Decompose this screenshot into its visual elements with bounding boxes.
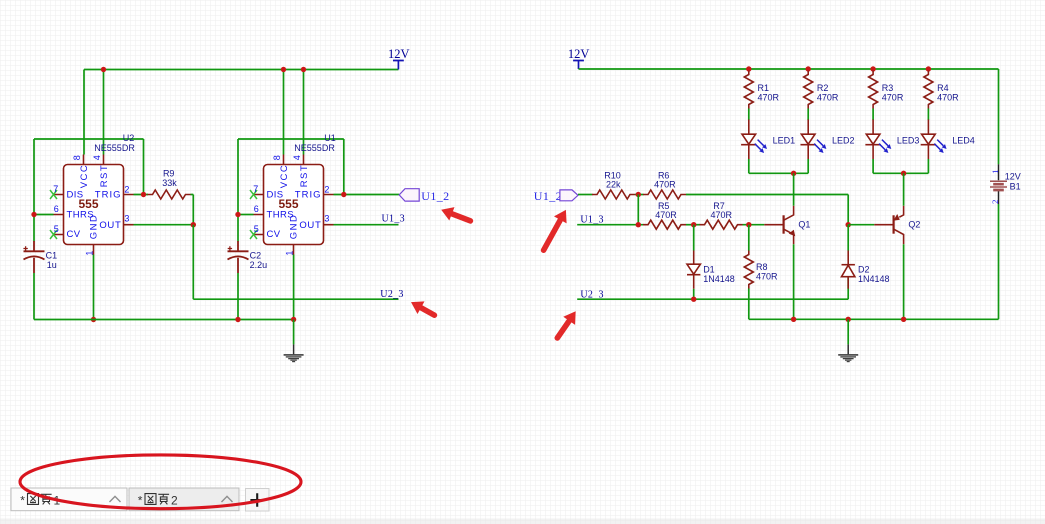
U1 pin numbers [253,155,329,255]
junction bottom Q2 [901,317,906,322]
wire D2 column [847,225,849,300]
sheet tab 2 [129,488,239,511]
wire U2 thrs/C1 left column [33,139,35,320]
annotation arrow at U1_2 port right [544,210,567,250]
resistor R9 [148,190,191,199]
svg-text:470R: 470R [711,210,733,220]
op-amp U1 555 box [254,155,334,255]
transistor Q2 [874,206,903,245]
wire net U1_3 right [577,224,643,226]
annotation ellipse around sheet tabs [20,455,301,509]
wire B1 column top [998,69,1000,164]
wire LED3 down [872,159,874,173]
wire LED1 down [748,159,750,173]
svg-text:2: 2 [324,184,329,194]
svg-text:470R: 470R [654,180,676,190]
junction bottom gnd [846,317,851,322]
svg-text:D1: D1 [703,264,715,274]
no-connect X U1 pin7 [250,190,257,199]
svg-text:B1: B1 [1010,181,1021,191]
port U1_2 left [399,189,449,203]
wire ground stub left [293,320,295,345]
wire U2 pin8 VCC column [83,70,85,155]
svg-text:5: 5 [54,224,59,234]
annotation arrow at U1_2 port left [441,207,470,221]
svg-text:3: 3 [124,214,129,224]
U2 pin names [67,164,122,240]
svg-text:4: 4 [292,155,302,160]
svg-text:470R: 470R [655,210,677,220]
junction bottom Q1 [791,317,796,322]
junction U2 gnd bottom [91,317,96,322]
junction rail R1 [746,66,751,71]
svg-text:R9: R9 [163,169,175,179]
wire R7 to Q1 base [743,224,765,226]
wire U1 pin4 RST column [303,70,305,155]
junction rail R4 [926,66,931,71]
svg-text:470R: 470R [817,92,839,102]
svg-text:VCC: VCC [79,164,90,189]
wire ground stub right [847,319,849,344]
wire port to R10 [578,194,593,196]
svg-text:U1: U1 [324,133,336,143]
wire U1 OUT net U1_3 [334,224,399,226]
wire U2 GND pin1 column [93,255,95,320]
diode D1 [687,251,700,289]
junction rail U1 pin4 [301,67,306,72]
resistor R3 [869,71,878,109]
wire LED4 down [927,159,929,173]
wire B1 bottom [998,204,1000,319]
wire U1 thrs/C2 left column [237,139,239,320]
svg-text:CV: CV [67,229,81,240]
power 12V symbol left [388,47,410,70]
wire Q2 emitter top [903,173,905,205]
svg-text:*: * [20,494,25,508]
svg-text:GND: GND [88,214,99,240]
junction on rail at U2 pin4 [101,67,106,72]
svg-text:U1_3: U1_3 [382,214,405,225]
svg-text:2: 2 [124,184,129,194]
resistor R2 [804,71,813,109]
wire U2 TRIG pin2 to R9 [134,139,149,195]
wire U2 pin4 RST column [103,70,105,155]
new sheet plus button [246,489,270,512]
wire bottom rail left [34,319,294,321]
junction C2 bottom [235,317,240,322]
svg-text:12V: 12V [1005,171,1021,181]
svg-text:1N4148: 1N4148 [703,274,735,284]
wire R3 to LED3 [872,109,874,121]
svg-text:LED3: LED3 [897,135,920,145]
svg-text:1: 1 [85,251,95,256]
wire U2 OUT pin3 [134,224,194,226]
wire junction down to U1_3 [637,195,639,225]
junction U1 thrs [235,212,240,217]
LED LED4 [921,120,947,160]
U1 pin names [267,164,322,240]
wire U1 TRIG pin2 to port [334,139,400,195]
svg-text:5: 5 [254,224,259,234]
svg-text:8: 8 [272,155,282,160]
resistor R10 [592,190,635,199]
svg-text:U1_2: U1_2 [421,189,449,203]
no-connect X U2 pin5 [50,230,57,239]
svg-text:U1_2: U1_2 [534,189,562,203]
sheet tab 1 [11,488,127,511]
junction U2 thrs [31,212,36,217]
wire Q2 base [848,224,874,226]
junction Q2 base column [846,222,851,227]
svg-text:22k: 22k [606,180,621,190]
wire U2 THRS pin6 [34,214,54,216]
svg-text:555: 555 [278,197,298,211]
annotation arrow at U2_3 right [557,311,575,338]
wire R6 to Q2 base corner [686,195,848,225]
resistor R8 [744,251,753,289]
svg-text:RST: RST [99,164,110,188]
no-connect X U1 pin5 [250,230,257,239]
wire R1 to LED1 [748,109,750,121]
wire net U2_3 right [577,298,848,300]
diode D2 [842,251,855,289]
junction rail R2 [806,66,811,71]
svg-text:12V: 12V [388,47,410,61]
svg-text:8: 8 [72,155,82,160]
wire R10 to R6 [635,194,644,196]
svg-text:Q1: Q1 [798,220,810,230]
svg-text:2: 2 [171,494,178,508]
junction R5-R7 D1 [691,222,696,227]
wire 12V rail left [84,69,398,71]
svg-text:U2_3: U2_3 [380,289,403,300]
svg-text:470R: 470R [756,272,778,282]
svg-text:7: 7 [253,184,258,194]
svg-text:3: 3 [324,214,329,224]
svg-text:U2: U2 [123,133,135,143]
wire Q2 collector down [903,244,905,319]
svg-text:U1_3: U1_3 [580,214,603,225]
svg-text:555: 555 [78,197,98,211]
LED LED2 [801,120,827,160]
svg-text:6: 6 [254,204,259,214]
resistor R6 [643,190,686,199]
wire U1 THRS pin6 [238,214,254,216]
svg-text:CV: CV [267,229,281,240]
wire R9 to U2 OUT [191,195,194,225]
wire Q1 collector [793,173,795,205]
capacitor C2 [228,241,249,273]
annotation arrow at U2_3 left [411,301,434,315]
svg-text:R8: R8 [756,262,768,272]
wire R5 to R7 [686,224,700,226]
svg-text:470R: 470R [758,92,780,102]
wire net U2_3 left [193,225,398,300]
svg-text:Q2: Q2 [908,220,920,230]
wire Q1 emitter down [793,244,795,319]
svg-text:LED2: LED2 [832,135,855,145]
svg-text:GND: GND [288,214,299,240]
svg-text:OUT: OUT [299,220,321,231]
svg-text:1u: 1u [47,260,57,270]
svg-text:OUT: OUT [99,220,121,231]
ground symbol left [284,344,304,362]
wire R8 column [748,225,750,320]
svg-text:NE555DR: NE555DR [94,143,135,153]
capacitor C1 [23,241,44,273]
op-amp U2 555 box [54,155,134,255]
wire U1 trig-thrs link rail [238,138,344,140]
svg-text:TRIG: TRIG [95,189,122,200]
ground symbol right [838,344,858,362]
junction R10-R6 [636,192,641,197]
svg-text:6: 6 [54,204,59,214]
junction U2_3 D1 [691,297,696,302]
wire 12V rail right [579,68,999,70]
svg-text:1N4148: 1N4148 [858,274,890,284]
resistor R5 [643,220,686,229]
svg-text:VCC: VCC [279,164,290,189]
junction U1 trig [341,192,346,197]
svg-text:4: 4 [92,155,102,160]
bottom scrollbar strip [0,519,1045,524]
junction U1_3 R10 column [636,222,641,227]
svg-text:33k: 33k [162,178,177,188]
junction rail R3 [870,66,875,71]
wire LED1-LED2 bus [749,172,808,174]
svg-text:1: 1 [285,251,295,256]
junction U2 trig [141,192,146,197]
svg-text:TRIG: TRIG [295,189,322,200]
port U1_2 right [534,189,578,203]
junction LED bus Q1 [791,171,796,176]
wire LED2 down [807,159,809,173]
svg-text:1: 1 [990,170,1000,174]
resistor R1 [744,71,753,109]
svg-text:LED1: LED1 [773,135,796,145]
svg-text:2.2u: 2.2u [250,260,268,270]
wire R4 to LED4 [927,109,929,121]
power 12V symbol right [568,47,590,69]
no-connect X U2 pin7 [50,190,57,199]
svg-text:2: 2 [990,200,1000,204]
wire U1 GND pin1 column [293,255,295,320]
wire U1 pin8 VCC column [283,70,285,155]
U2 pin numbers [53,155,129,255]
resistor R7 [700,220,743,229]
wire D1 column [693,225,695,300]
svg-text:LED4: LED4 [952,135,975,145]
battery B1 [990,164,1007,204]
transistor Q1 [764,206,795,245]
svg-text:*: * [138,494,143,508]
svg-text:7: 7 [53,184,58,194]
wire bottom rail right [749,318,999,320]
resistor R4 [924,71,933,109]
junction R7-R8 [746,222,751,227]
wire U2 trig-thrs link rail [34,138,144,140]
LED LED1 [741,120,767,160]
junction U2 out [191,222,196,227]
svg-text:12V: 12V [568,47,590,61]
svg-text:470R: 470R [937,92,959,102]
junction LED bus Q2 [901,171,906,176]
svg-text:RST: RST [299,164,310,188]
svg-text:D2: D2 [858,264,870,274]
LED LED3 [865,120,891,160]
wire R2 to LED2 [807,109,809,121]
wire LED3-LED4 bus [873,172,928,174]
svg-text:NE555DR: NE555DR [294,143,335,153]
junction rail U1 pin8 [281,67,286,72]
svg-text:470R: 470R [882,92,904,102]
junction U1 gnd bottom [291,317,296,322]
